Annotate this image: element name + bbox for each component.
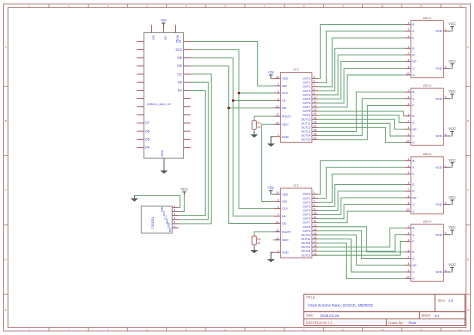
wire U-1 OUT5 to seg bbox=[318, 198, 404, 215]
svg-text:VDD: VDD bbox=[436, 29, 443, 33]
wire U-1 OUT4 to seg bbox=[318, 191, 404, 210]
svg-text:+5V: +5V bbox=[268, 71, 275, 75]
RTC module DS3231 bbox=[141, 205, 178, 233]
svg-text:E: E bbox=[412, 250, 414, 254]
ground (arduino bottom) bbox=[160, 168, 168, 174]
svg-text:D9: D9 bbox=[177, 64, 181, 68]
svg-text:Rual: Rual bbox=[409, 321, 417, 325]
wire U-1 OUT13 to seg bbox=[318, 228, 404, 247]
wire D9 to U-2/U-1 OE bbox=[191, 66, 274, 224]
svg-text:VCC: VCC bbox=[449, 196, 457, 200]
svg-text:VDD: VDD bbox=[436, 97, 443, 101]
junction (OE net) bbox=[227, 107, 230, 110]
svg-text:F: F bbox=[412, 240, 414, 244]
svg-text:B: B bbox=[412, 226, 414, 230]
svg-text:GND: GND bbox=[282, 250, 290, 254]
wire A4 to DS3231 SCL bbox=[179, 90, 206, 215]
wire U-2 OUT15 to seg bbox=[318, 106, 404, 140]
svg-text:A: A bbox=[467, 45, 469, 49]
svg-text:21: 21 bbox=[276, 220, 279, 224]
svg-text:E: E bbox=[5, 308, 7, 312]
wire LED-3 VDD bottom to VCC bbox=[450, 204, 452, 205]
svg-text:D6: D6 bbox=[145, 129, 149, 133]
svg-text:2018-03-05: 2018-03-05 bbox=[320, 314, 339, 318]
svg-text:E: E bbox=[412, 114, 414, 118]
svg-text:B: B bbox=[467, 119, 469, 123]
svg-text:21: 21 bbox=[276, 104, 279, 108]
wire U-1 OUT0 to seg bbox=[318, 161, 404, 195]
svg-text:24: 24 bbox=[276, 191, 279, 195]
wire DS3231 GND to ground bbox=[134, 195, 180, 207]
ground (R2) bbox=[250, 247, 258, 253]
svg-text:+5V: +5V bbox=[160, 19, 167, 23]
svg-text:R-EXT: R-EXT bbox=[282, 114, 291, 118]
svg-text:Date:: Date: bbox=[306, 314, 314, 318]
svg-text:DP: DP bbox=[412, 263, 416, 267]
wire U-1 OUT11 to seg bbox=[318, 239, 404, 272]
wire U-2 OUT10 to seg bbox=[318, 119, 404, 129]
svg-text:A: A bbox=[412, 29, 414, 33]
svg-text:D2: D2 bbox=[177, 72, 181, 76]
wire U-2 OUT3 to seg bbox=[318, 48, 404, 91]
svg-text:B: B bbox=[412, 159, 414, 163]
svg-text:10: 10 bbox=[406, 275, 409, 279]
wire U-2 OUT12 to seg bbox=[318, 127, 404, 142]
svg-text:C: C bbox=[5, 188, 7, 192]
resistor R2 2k bbox=[252, 232, 273, 247]
svg-text:OE: OE bbox=[282, 106, 286, 110]
wire U-1 OUT14 to seg bbox=[318, 235, 404, 251]
power flag VCC (LED-3 top) bbox=[449, 158, 457, 166]
svg-text:D7: D7 bbox=[145, 121, 149, 125]
svg-text:R-EXT: R-EXT bbox=[282, 230, 291, 234]
wire U-1 GND pin to ground bbox=[271, 252, 273, 256]
svg-text:Clock Arduino Nano, DS3231, MB: Clock Arduino Nano, DS3231, MBI5026 bbox=[308, 304, 373, 308]
svg-text:DP: DP bbox=[412, 196, 416, 200]
wire U-2 GND pin to ground bbox=[271, 137, 273, 141]
svg-text:23: 23 bbox=[276, 113, 279, 117]
svg-text:1/1: 1/1 bbox=[435, 314, 440, 318]
ground (DS3231) bbox=[131, 195, 139, 201]
svg-text:VDD: VDD bbox=[282, 192, 289, 196]
ground (U-1) bbox=[267, 256, 275, 262]
wire DS3231 VCC to flag bbox=[179, 196, 185, 212]
wire U-2 OUT6 to seg bbox=[318, 68, 404, 103]
svg-text:D: D bbox=[5, 258, 7, 262]
wire LED-4 VDD top to VCC bbox=[450, 234, 452, 235]
svg-text:LED-2: LED-2 bbox=[423, 83, 432, 87]
svg-text:A: A bbox=[412, 97, 414, 101]
svg-text:DP: DP bbox=[412, 60, 416, 64]
svg-text:VCC: VCC bbox=[181, 188, 189, 192]
wire U-2 OUT14 to seg bbox=[318, 99, 404, 136]
svg-text:REV:: REV: bbox=[438, 299, 446, 303]
wire U-1 OUT2 to seg bbox=[318, 174, 404, 202]
svg-text:DS3231: DS3231 bbox=[151, 217, 155, 229]
svg-text:SDO: SDO bbox=[282, 238, 289, 242]
svg-text:B: B bbox=[412, 90, 414, 94]
wire U-2 OUT8 to seg bbox=[318, 111, 404, 116]
svg-text:F: F bbox=[412, 104, 414, 108]
wire U-2 OUT2 to seg bbox=[318, 38, 404, 87]
wire U-1 OUT6 to seg bbox=[318, 205, 404, 219]
svg-text:E: E bbox=[412, 183, 414, 187]
connector LED-4 (7-seg header) bbox=[404, 219, 450, 281]
power flag VCC (LED-4 top) bbox=[449, 226, 457, 234]
svg-text:LED-4: LED-4 bbox=[423, 219, 432, 223]
svg-text:A5: A5 bbox=[178, 80, 182, 84]
svg-text:CLK: CLK bbox=[282, 207, 288, 211]
svg-text:A4: A4 bbox=[178, 89, 182, 93]
power flag +5V (U-1) bbox=[271, 193, 274, 195]
svg-text:LE: LE bbox=[282, 214, 286, 218]
svg-text:3V3: 3V3 bbox=[152, 35, 156, 40]
svg-text:+5V: +5V bbox=[164, 35, 168, 40]
svg-text:D13: D13 bbox=[176, 48, 182, 52]
svg-text:CLK: CLK bbox=[282, 91, 288, 95]
svg-text:D5: D5 bbox=[145, 138, 149, 142]
svg-text:VCC: VCC bbox=[449, 226, 457, 230]
title block bbox=[304, 294, 465, 325]
svg-text:D11: D11 bbox=[176, 40, 182, 44]
svg-text:VDD: VDD bbox=[436, 67, 443, 71]
svg-text:10: 10 bbox=[406, 139, 409, 143]
wire U-1 OUT1 to seg bbox=[318, 167, 404, 198]
power flag VCC (LED-1 bottom) bbox=[449, 59, 457, 67]
svg-text:LED-1: LED-1 bbox=[423, 16, 432, 20]
svg-text:22: 22 bbox=[276, 121, 279, 125]
wire LED-2 VDD bottom to VCC bbox=[450, 135, 452, 136]
connector LED-2 (7-seg header) bbox=[404, 83, 450, 145]
svg-text:D: D bbox=[467, 258, 469, 262]
svg-text:A: A bbox=[5, 45, 7, 49]
svg-text:B: B bbox=[412, 23, 414, 27]
wire D11 to U-2 SDI bbox=[191, 42, 274, 86]
svg-text:+5V: +5V bbox=[268, 186, 275, 190]
svg-text:LE: LE bbox=[282, 99, 286, 103]
svg-text:10: 10 bbox=[406, 72, 409, 76]
svg-text:D8: D8 bbox=[177, 56, 181, 60]
wire LED-1 VDD top to VCC bbox=[450, 30, 452, 31]
svg-text:A: A bbox=[412, 165, 414, 169]
svg-text:VCC: VCC bbox=[449, 158, 457, 162]
svg-text:VCC: VCC bbox=[449, 22, 457, 26]
wire U-2 OUT13 to seg bbox=[318, 92, 404, 131]
power flag VCC (LED-3 bottom) bbox=[449, 196, 457, 204]
svg-text:VCC: VCC bbox=[449, 127, 457, 131]
power flag +5V (U-2) bbox=[271, 78, 274, 80]
junction (LE net) bbox=[232, 99, 235, 102]
wire U-2 OUT0 to seg bbox=[318, 25, 404, 79]
svg-text:VDD: VDD bbox=[282, 77, 289, 81]
svg-text:SDI: SDI bbox=[282, 200, 287, 204]
svg-text:Drawn By:: Drawn By: bbox=[388, 321, 403, 325]
svg-text:C: C bbox=[467, 188, 469, 192]
wire U-1 OUT15 to seg bbox=[318, 242, 404, 256]
wire U-2 SDO to U-1 SDI bbox=[262, 124, 274, 201]
wire U-2 OUT1 to seg bbox=[318, 31, 404, 83]
wire LED-4 VDD bottom to VCC bbox=[450, 271, 452, 272]
svg-text:VDD: VDD bbox=[436, 165, 443, 169]
connector LED-3 (7-seg header) bbox=[404, 152, 450, 214]
power flag +5V (arduino) bbox=[160, 19, 167, 27]
wire LED-1 VDD bottom to VCC bbox=[450, 67, 452, 68]
power flag VCC (LED-4 bottom) bbox=[449, 263, 457, 271]
wire U-2 OUT4 to seg bbox=[318, 55, 404, 95]
svg-text:VCC: VCC bbox=[449, 59, 457, 63]
svg-text:VCC: VCC bbox=[449, 263, 457, 267]
power flag VCC (LED-2 top) bbox=[449, 90, 457, 98]
wire LED-3 VDD top to VCC bbox=[450, 166, 452, 167]
svg-text:10: 10 bbox=[406, 208, 409, 212]
svg-text:1.0: 1.0 bbox=[448, 299, 453, 303]
wire U-1 OUT8 to seg bbox=[318, 227, 404, 252]
svg-text:OUT15: OUT15 bbox=[301, 138, 311, 142]
wire U-1 OUT10 to seg bbox=[318, 235, 404, 265]
junction (CLK net) bbox=[238, 92, 241, 95]
svg-text:U-2: U-2 bbox=[294, 68, 299, 72]
svg-text:U-1: U-1 bbox=[294, 183, 299, 187]
ground (U-2) bbox=[267, 141, 275, 147]
svg-text:Arduino_nano_v3: Arduino_nano_v3 bbox=[147, 102, 171, 106]
ground (R1) bbox=[250, 131, 258, 137]
svg-text:A: A bbox=[412, 233, 414, 237]
svg-text:VDD: VDD bbox=[436, 134, 443, 138]
svg-text:23: 23 bbox=[276, 228, 279, 232]
svg-text:SDI: SDI bbox=[282, 84, 287, 88]
wire U-2 OUT5 to seg bbox=[318, 62, 404, 99]
svg-text:VDD: VDD bbox=[436, 233, 443, 237]
wire D2 to DS3231 SQW bbox=[179, 74, 212, 224]
svg-text:E: E bbox=[412, 46, 414, 50]
svg-text:24: 24 bbox=[276, 75, 279, 79]
svg-text:GND: GND bbox=[282, 135, 290, 139]
svg-text:OUT15: OUT15 bbox=[301, 253, 311, 257]
svg-text:32K: 32K bbox=[169, 227, 172, 232]
shift register U-2 MBI5026 bbox=[273, 68, 318, 143]
resistor R1 2k bbox=[252, 116, 273, 131]
svg-text:SDO: SDO bbox=[282, 122, 289, 126]
svg-text:F: F bbox=[412, 36, 414, 40]
wire D8 to U-2/U-1 LE bbox=[191, 58, 274, 216]
svg-text:EASYEDA V5.1.3: EASYEDA V5.1.3 bbox=[306, 321, 332, 325]
wire U-1 OUT7 to seg bbox=[318, 211, 404, 222]
wire A5 to DS3231 SDA bbox=[179, 82, 209, 219]
wire U-2 OUT7 to seg bbox=[318, 75, 404, 107]
svg-text:GND: GND bbox=[160, 150, 164, 156]
shift register U-1 MBI5026 bbox=[273, 183, 318, 258]
svg-text:22: 22 bbox=[276, 236, 279, 240]
wire U-1 OUT3 to seg bbox=[318, 185, 404, 207]
wire LED-2 VDD top to VCC bbox=[450, 98, 452, 99]
wire U-2 OUT11 to seg bbox=[318, 123, 404, 136]
connector LED-1 (7-seg header) bbox=[404, 16, 450, 78]
svg-text:B: B bbox=[5, 119, 7, 123]
svg-text:Sheet:: Sheet: bbox=[421, 314, 431, 318]
MCU module Arduino_nano_v3 bbox=[137, 25, 191, 168]
svg-text:F: F bbox=[412, 172, 414, 176]
svg-text:DP: DP bbox=[412, 127, 416, 131]
svg-text:VDD: VDD bbox=[436, 270, 443, 274]
wire U-1 OUT9 to seg bbox=[318, 231, 404, 259]
svg-text:OE: OE bbox=[282, 222, 286, 226]
svg-text:LED-3: LED-3 bbox=[423, 152, 432, 156]
power flag VCC (DS3231) bbox=[181, 188, 189, 196]
svg-text:D4: D4 bbox=[145, 146, 149, 150]
svg-text:TITLE:: TITLE: bbox=[306, 296, 316, 300]
svg-text:VCC: VCC bbox=[449, 90, 457, 94]
wire U-2 OUT9 to seg bbox=[318, 115, 404, 122]
power flag VCC (LED-1 top) bbox=[449, 22, 457, 30]
power flag VCC (LED-2 bottom) bbox=[449, 127, 457, 135]
wire D13 to U-2/U-1 CLK bbox=[191, 50, 274, 209]
svg-text:VDD: VDD bbox=[436, 203, 443, 207]
wire U-1 OUT12 to seg bbox=[318, 243, 404, 279]
svg-text:E: E bbox=[467, 308, 469, 312]
